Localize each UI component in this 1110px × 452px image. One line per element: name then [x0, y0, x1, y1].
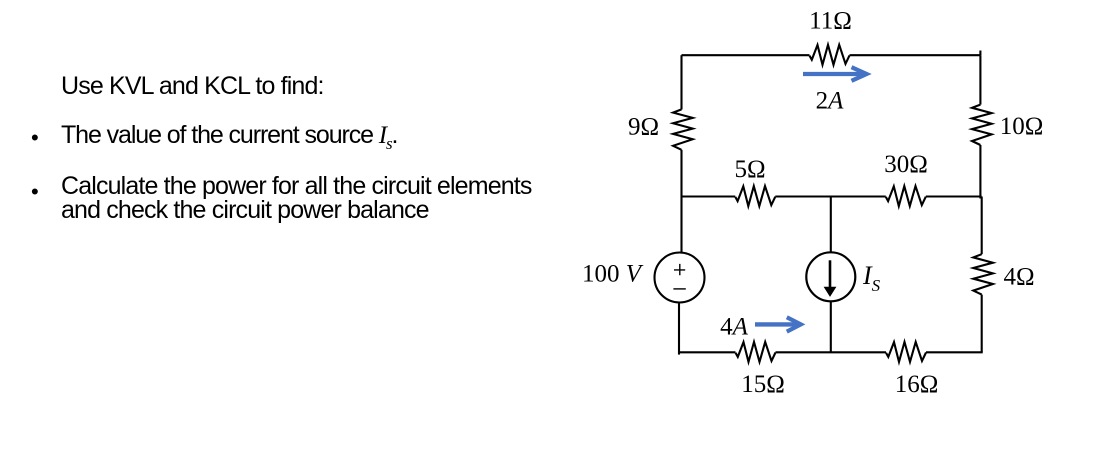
- resistor R 30ohm (middle rail right): [886, 186, 926, 206]
- current source arrow (downward): [825, 260, 836, 296]
- current arrow 2A (blue, top): [755, 67, 867, 331]
- bullet 1 text: [61, 121, 397, 154]
- bullet 2 text: [61, 174, 532, 223]
- resistor R 9ohm (left branch): [673, 109, 693, 149]
- wire right stub above top-right corner: [979, 51, 981, 56]
- svg-text:2A: 2A: [816, 88, 845, 115]
- wire middle rail segment 2: [775, 195, 886, 197]
- voltage source plus sign: [673, 264, 685, 289]
- wire left vertical (middle rail to voltage source): [680, 197, 682, 253]
- svg-text:15Ω: 15Ω: [741, 371, 785, 398]
- wire left vertical (9-ohm to middle rail): [680, 150, 682, 197]
- wire bottom rail segment 1: [680, 351, 736, 353]
- wire middle rail segment 1: [682, 195, 736, 197]
- svg-text:30Ω: 30Ω: [884, 151, 928, 178]
- svg-text:9Ω: 9Ω: [628, 114, 659, 141]
- wire bottom rail segment 2: [776, 351, 887, 353]
- resistor R 4ohm (right branch lower): [973, 254, 993, 294]
- heading text: [61, 72, 324, 101]
- resistor R 16ohm (bottom rail right): [886, 342, 926, 362]
- wire right vertical (middle rail to 4-ohm): [981, 197, 983, 255]
- voltage source minus sign: [673, 288, 685, 290]
- wire top rail right segment: [850, 54, 981, 56]
- wire middle rail segment 3: [926, 195, 982, 197]
- current source Is circle: [806, 252, 855, 301]
- resistor R 5ohm (middle rail left): [735, 186, 775, 206]
- svg-text:4Ω: 4Ω: [1003, 264, 1034, 291]
- wire left vertical (top rail to 9-ohm): [680, 55, 682, 109]
- voltage source V1 100V circle: [655, 253, 705, 303]
- bullet 2 marker: [31, 179, 39, 205]
- resistor R 15ohm (bottom rail left): [736, 342, 776, 362]
- wire right vertical (4-ohm to bottom rail): [981, 295, 983, 353]
- svg-text:10Ω: 10Ω: [1000, 113, 1044, 140]
- wire right vertical upper (top rail to 10-ohm): [979, 55, 981, 104]
- svg-text:4A: 4A: [720, 314, 749, 341]
- resistor R 10ohm (right branch upper): [972, 105, 992, 145]
- current arrow 4A (blue, bottom): [755, 322, 797, 326]
- wire middle vertical (current source to bottom rail): [830, 301, 832, 352]
- svg-text:11Ω: 11Ω: [809, 8, 852, 35]
- svg-text:16Ω: 16Ω: [895, 371, 939, 398]
- svg-text:IS: IS: [862, 261, 881, 295]
- wire bottom rail segment 3: [926, 351, 983, 353]
- resistor R 11ohm (top rail): [810, 45, 850, 65]
- wire right vertical (10-ohm to middle rail): [979, 145, 981, 199]
- svg-text:100 V: 100 V: [582, 261, 644, 288]
- wire middle vertical (middle rail to current source): [830, 197, 832, 253]
- wire top rail left segment: [682, 54, 810, 56]
- wire left vertical (voltage source to bottom rail): [678, 304, 680, 355]
- bullet 1 marker: [31, 125, 39, 151]
- svg-text:5Ω: 5Ω: [734, 156, 765, 183]
